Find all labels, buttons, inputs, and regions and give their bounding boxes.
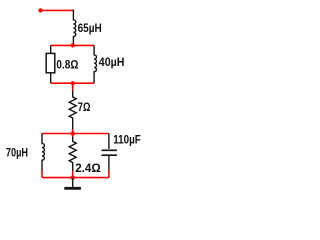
- svg-text:65µH: 65µH: [78, 21, 102, 35]
- ground lead: [72, 178, 74, 188]
- resistor R3 2.4ohm (zigzag): [69, 137, 76, 172]
- wire stub node B down: [72, 83, 74, 91]
- wire: input to L1: [41, 9, 74, 11]
- resistor R2 7ohm (zigzag): [69, 91, 76, 130]
- node B (bottom of parallel group 1): [71, 81, 75, 85]
- ground bar: [64, 187, 81, 190]
- svg-text:2.4Ω: 2.4Ω: [75, 161, 101, 175]
- svg-text:40µH: 40µH: [99, 55, 125, 69]
- inductor L1 65uH: [73, 10, 75, 46]
- resistor R1 body: [46, 53, 55, 72]
- capacitor C1 110uF lead top: [108, 134, 110, 149]
- svg-text:0.8Ω: 0.8Ω: [56, 58, 78, 72]
- capacitor C1 lead bottom: [108, 156, 110, 171]
- wire stub into node C: [72, 129, 74, 134]
- wire: left branch bottom stub: [41, 170, 43, 178]
- wire stub node C down: [72, 134, 74, 137]
- resistor R1 lead bottom: [50, 73, 52, 83]
- wire: middle branch bottom stub: [72, 171, 74, 178]
- capacitor C1 plate bottom: [102, 154, 117, 156]
- capacitor C1 plate top: [102, 149, 117, 151]
- wire: group1 bottom: [51, 82, 94, 84]
- inductor L3 70uH: [42, 134, 44, 171]
- node C (top of parallel group 2): [71, 132, 75, 136]
- wire: group1 top: [51, 44, 94, 46]
- svg-text:110µF: 110µF: [113, 133, 141, 147]
- terminal dot (input node): [38, 8, 42, 12]
- node D (bottom rail / ground node): [71, 176, 75, 180]
- wire: group2 bottom: [42, 177, 109, 179]
- wire: group2 top: [42, 133, 109, 135]
- svg-text:70µH: 70µH: [6, 145, 28, 159]
- inductor L2 40uH: [94, 45, 96, 83]
- wire: right branch bottom stub: [108, 170, 110, 177]
- resistor R1 0.8ohm (box) lead top: [50, 45, 52, 53]
- node A (top of parallel group 1): [71, 43, 75, 47]
- svg-text:7Ω: 7Ω: [78, 100, 91, 114]
